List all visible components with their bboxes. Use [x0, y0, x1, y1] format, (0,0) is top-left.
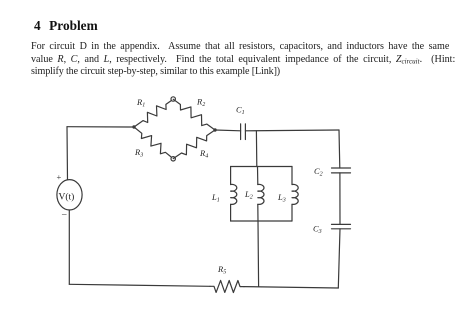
wire: C1 to top-right corner — [245, 129, 339, 132]
inductor L2 — [258, 184, 264, 204]
svg-text:V(t): V(t) — [59, 192, 75, 203]
inductor L1 — [231, 184, 237, 204]
resistor R4 — [173, 130, 215, 159]
wire: bottom horizontal from left corner to R5 — [69, 284, 210, 286]
inductor box: bottom edge — [231, 220, 292, 222]
node: bridge top (open circle) — [171, 97, 175, 101]
svg-text:R4: R4 — [199, 148, 208, 160]
inductor box: right edge lower — [291, 204, 293, 221]
wire: left vertical from top corner down to voltage source — [66, 127, 69, 180]
wire: C3 down to bottom-right corner — [338, 229, 340, 288]
inductor box: top edge — [231, 166, 292, 168]
svg-text:R3: R3 — [134, 147, 143, 159]
wire: C2 to C3 — [339, 173, 341, 225]
inductor box: right edge upper — [291, 167, 293, 185]
wire: middle vertical inside box lower and down to bottom wire — [257, 204, 260, 286]
svg-text:R5: R5 — [217, 264, 226, 276]
svg-text:R2: R2 — [196, 97, 205, 109]
svg-text:L1: L1 — [211, 192, 220, 204]
voltage source V(t) — [57, 172, 83, 219]
wire: from voltage source bottom down to bottom-left corner — [68, 210, 70, 284]
svg-text:L2: L2 — [244, 189, 253, 201]
wire: middle vertical drop from top wire to inductor box — [255, 131, 257, 167]
node: bridge left junction — [132, 125, 135, 128]
wire: bridge right node to capacitor C1 — [215, 129, 241, 132]
svg-text:L3: L3 — [277, 192, 286, 204]
problem statement paragraph — [31, 41, 471, 79]
svg-text:C2: C2 — [314, 166, 323, 178]
capacitor C1 — [241, 124, 246, 140]
capacitor C2 — [332, 168, 351, 173]
svg-text:R1: R1 — [136, 97, 145, 109]
resistor R1 — [134, 99, 173, 127]
svg-text:–: – — [61, 209, 67, 219]
resistor R5 — [210, 280, 244, 292]
resistor R2 — [173, 99, 215, 130]
document title — [34, 18, 98, 34]
svg-text:C1: C1 — [236, 105, 245, 117]
node: bridge bottom (open circle) — [171, 157, 175, 161]
wire: R5 to bottom-right corner — [244, 287, 338, 288]
inductor box: left edge lower — [230, 204, 232, 221]
wire: right vertical from top-right corner down to C2 — [338, 130, 341, 168]
node: bridge right junction — [213, 128, 216, 131]
inductor L3 — [292, 184, 298, 204]
inductor box: left edge upper — [230, 167, 232, 185]
capacitor C3 — [332, 224, 351, 228]
svg-text:+: + — [57, 172, 62, 182]
wire: middle vertical inside box upper — [257, 167, 259, 185]
wire: top-left horizontal from corner to bridge left node — [67, 126, 134, 128]
resistor R3 — [134, 127, 173, 159]
svg-text:C3: C3 — [313, 224, 322, 236]
